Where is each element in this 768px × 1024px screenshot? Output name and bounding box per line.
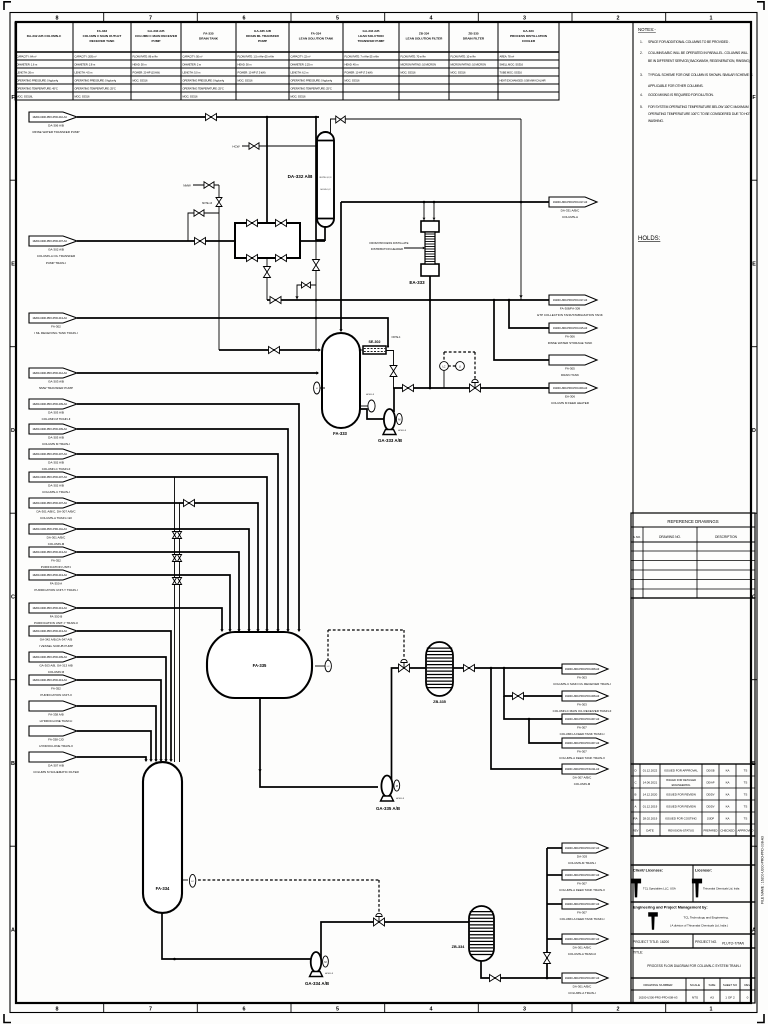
valve on DA-301 header y503 [184,500,195,507]
svg-text:DA-301 A/B/C, DA-307 A/B/C: DA-301 A/B/C, DA-307 A/B/C [36,510,76,514]
svg-text:LEAN SOLUTION TANK: LEAN SOLUTION TANK [299,37,334,41]
arrow into FA-334 x156 [154,759,157,762]
svg-text:DA-303: DA-303 [577,855,588,859]
destination tag FA-306 [548,323,597,345]
svg-text:GA-303 A/B, GA-313 A/B: GA-303 A/B, GA-313 A/B [39,664,72,668]
svg-text:MOC: SS316: MOC: SS316 [75,95,90,99]
svg-text:FA-352: FA-352 [51,559,61,563]
svg-text:LENGTH: 26 m: LENGTH: 26 m [17,71,35,75]
wire header line y706 to lean solution tank [77,706,156,760]
svg-text:16200-U300-PRO-PFD-010-A3: 16200-U300-PRO-PFD-010-A3 [32,115,67,119]
svg-text:MOC: SS316: MOC: SS316 [133,79,148,83]
svg-text:DA-307 A/B/C: DA-307 A/B/C [573,776,593,780]
svg-text:HYDROCLONE TRAIN-II: HYDROCLONE TRAIN-II [39,744,73,748]
svg-text:REFERENCE DRAWINGS: REFERENCE DRAWINGS [667,519,718,524]
svg-text:2: 2 [617,16,620,22]
drawing title block [631,948,755,978]
svg-text:3: 3 [523,1007,526,1013]
svg-text:NMW TRANSFER PUMP: NMW TRANSFER PUMP [39,386,73,390]
svg-text:TS: TS [744,781,748,785]
svg-text:COLUMN-A TRAIN-I: COLUMN-A TRAIN-I [568,991,596,995]
svg-text:GA-335 A/B: GA-335 A/B [376,806,400,811]
svg-text:APPLICABLE FOR OTHER COLUMNS.: APPLICABLE FOR OTHER COLUMNS. [648,84,704,88]
svg-text:HYDROCLONE TRAIN-I: HYDROCLONE TRAIN-I [40,719,73,723]
svg-text:FA-302: FA-302 [51,325,61,329]
svg-text:0: 0 [747,996,749,1000]
svg-text:HOLD-3: HOLD-3 [396,798,405,800]
svg-text:E: E [752,262,756,268]
svg-text:NMW: NMW [183,184,191,188]
svg-text:TITLE:: TITLE: [633,951,643,955]
svg-text:RINSE WATER STORAGE TANK: RINSE WATER STORAGE TANK [548,341,593,345]
wire header line y454 to drain tank [77,454,278,630]
svg-text:DIAMETER: 1.6 m: DIAMETER: 1.6 m [17,63,38,67]
svg-text:4.: 4. [640,93,643,97]
svg-text:FA-303: FA-303 [577,676,587,680]
wire header line y731 to lean solution tank [77,731,151,760]
valves on standpipes [172,555,176,562]
svg-text:NOTE-13: NOTE-13 [202,202,213,205]
svg-text:BE IN DIFFERENT SERVICE( BACKW: BE IN DIFFERENT SERVICE( BACKWASH, REGEN… [648,59,751,63]
svg-text:GA-342 A/B,GA-347 A/B: GA-342 A/B,GA-347 A/B [40,638,73,642]
svg-text:GOOD MIXING IS REQUIRED FOR DI: GOOD MIXING IS REQUIRED FOR DILUTION. [648,93,714,97]
svg-text:DD/AP: DD/AP [707,781,715,785]
instrument circle LC [440,362,449,371]
svg-text:DRAWING NUMBER: DRAWING NUMBER [643,983,673,987]
filter ZB-335 [426,642,453,696]
svg-text:PURIFICATION UNIT-I: PURIFICATION UNIT-I [41,565,72,569]
svg-text:2: 2 [617,1007,620,1013]
wire GA-302 suction line to manifold [77,240,235,242]
arrow on FA-335 outlet [258,769,261,772]
source tag GA-342 [29,626,77,648]
svg-text:ISSUED FOR REVIEW: ISSUED FOR REVIEW [666,793,696,797]
wire twin standpipe A [174,477,176,762]
svg-text:LENGTH: 5.0 m: LENGTH: 5.0 m [183,71,202,75]
svg-text:16200-U300-PRO-PFD-013-A3: 16200-U300-PRO-PFD-013-A3 [32,573,67,577]
svg-text:PROJECT NO.: PROJECT NO. [695,940,717,944]
wire header line y608 to drain tank [77,608,222,630]
svg-text:16200-U300-PRO-PFD-015-A3: 16200-U300-PRO-PFD-015-A3 [553,326,588,330]
svg-text:FA-335: FA-335 [203,31,213,35]
svg-text:8: 8 [56,16,59,22]
svg-text:LI: LI [459,365,461,368]
svg-text:KA: KA [726,781,730,785]
wire NMW transfer line y373 into FA-333 [77,372,318,374]
svg-text:COLUMN M TRAIN-I: COLUMN M TRAIN-I [42,442,70,446]
wire branch FA-307 I tag [547,903,562,905]
valve on mini bypass [302,282,311,288]
svg-text:16200-U300-PRO-PFD-007-A3: 16200-U300-PRO-PFD-007-A3 [565,717,600,721]
svg-text:16200-U300-PRO-PFD-009-A3: 16200-U300-PRO-PFD-009-A3 [32,427,67,431]
svg-text:SHELL MOC: SS316: SHELL MOC: SS316 [500,63,524,67]
svg-text:LENGTH: 4.5 m: LENGTH: 4.5 m [75,71,94,75]
svg-text:LEAN SOLUTION FILTER: LEAN SOLUTION FILTER [406,37,443,41]
destination tag FA-307 y875 [559,870,608,892]
svg-text:FA-350 B: FA-350 B [50,615,63,619]
arrow into FA-335 x267 [265,629,268,632]
wire FA-334 bottom outlet to GA-334 [162,913,311,959]
svg-text:EA-333: EA-333 [523,29,534,33]
svg-text:CAPACITY: 64 m³: CAPACITY: 64 m³ [17,55,37,59]
svg-text:COLUMN-A FEED TANK TRAIN-II: COLUMN-A FEED TANK TRAIN-II [559,888,605,892]
svg-text:DA-331 A/B/C: DA-331 A/B/C [561,209,581,213]
svg-text:PLUTO-TITAN: PLUTO-TITAN [722,942,744,946]
svg-text:FLOW RATE: 70 m³/hr: FLOW RATE: 70 m³/hr [401,55,426,59]
instrument dashed loop LC FA-333 [444,351,475,353]
svg-text:COLUMN-C MAIN O/L RECEIVER TRA: COLUMN-C MAIN O/L RECEIVER TRAIN-II [553,709,612,713]
svg-text:ENGINEERING: ENGINEERING [672,783,691,787]
svg-text:HOLD-3: HOLD-3 [366,394,375,396]
source tag FA-352 I [29,547,77,569]
svg-text:COOLER: COOLER [522,39,536,43]
svg-text:4: 4 [430,1007,433,1013]
svg-text:DA-301 A/B/C: DA-301 A/B/C [573,985,593,989]
svg-text:AREA: 78 m²: AREA: 78 m² [500,55,515,59]
vessel FA-333 [322,333,360,428]
svg-text:OPERATING TEMPERATURE: 25°C: OPERATING TEMPERATURE: 25°C [183,87,224,91]
svg-text:COLUMN-A O/L TRANSFER: COLUMN-A O/L TRANSFER [37,254,76,258]
svg-text:Client/ Licensee:: Client/ Licensee: [633,869,663,873]
svg-text:FA-352: FA-352 [51,687,61,691]
wire header line y404 to drain tank [77,404,299,630]
svg-text:FILE NAME : 16200-U300-PRO-PFD: FILE NAME : 16200-U300-PRO-PFD-008-A3 [761,836,765,904]
svg-text:FA-307: FA-307 [577,911,587,915]
svg-text:COLUMN M SCHEMATIC FILTER: COLUMN M SCHEMATIC FILTER [33,770,79,774]
arrow into FA-335 x222 [220,629,223,632]
svg-text:CAPACITY: 50 m³: CAPACITY: 50 m³ [183,55,203,59]
wire header line y429 to drain tank [77,429,288,630]
node on y388 [429,387,432,390]
wire FA-335 bottom outlet to GA-335 [260,698,378,787]
label from process distillate header [370,241,425,251]
wire NMW line [193,184,219,186]
svg-text:SPACE FOR ADDITIONAL COLUMNS T: SPACE FOR ADDITIONAL COLUMNS TO BE PROVI… [648,40,730,44]
svg-text:DATE: DATE [646,829,654,833]
svg-text:16200-U300-PRO-PFD-011-A3: 16200-U300-PRO-PFD-011-A3 [32,527,67,531]
svg-text:OPERATING TEMPERATURE: 25°C: OPERATING TEMPERATURE: 25°C [291,87,332,91]
svg-text:POWER: 10 HP (7.5 kW): POWER: 10 HP (7.5 kW) [345,71,373,75]
node junctions on ETP header [315,299,318,302]
arrow into FA-335 x278 [276,629,279,632]
svg-text:REV: REV [744,983,751,987]
svg-text:TS: TS [744,817,748,821]
source tag DA-301/307 [29,498,77,520]
svg-text:M: M [324,960,326,964]
svg-text:16200-U300-PRO-PFD-007-A3: 16200-U300-PRO-PFD-007-A3 [32,475,67,479]
svg-text:FLOW RATE: 1.5 m³/hr+25 m³/hr: FLOW RATE: 1.5 m³/hr+25 m³/hr [238,55,275,59]
arrow into FA-335 x230 [228,629,231,632]
valve manifold bottom right [276,255,287,262]
svg-text:16200-U300-PRO-PFD-013-A3: 16200-U300-PRO-PFD-013-A3 [32,316,67,320]
svg-text:KA: KA [726,769,730,773]
svg-text:FLOW RATE: 7 m³/hr+25 m³/hr: FLOW RATE: 7 m³/hr+25 m³/hr [345,55,380,59]
svg-text:DD/DV: DD/DV [706,793,714,797]
svg-text:COLUMN-C TRAIN-I: COLUMN-C TRAIN-I [42,490,70,494]
svg-text:OPERATING PRESSURE: 0 kg/cm²g: OPERATING PRESSURE: 0 kg/cm²g [17,79,59,83]
svg-text:SHEET NO: SHEET NO [723,983,738,987]
svg-text:NTS: NTS [692,996,698,1000]
svg-text:M: M [396,784,398,788]
svg-text:KA: KA [726,817,730,821]
source tag GA-302 [29,236,77,265]
svg-text:GA-333 A/B: GA-333 A/B [378,438,402,443]
svg-text:16200-U300-PRO-PFD-017-A3: 16200-U300-PRO-PFD-017-A3 [553,200,588,204]
instrument circle LI [456,362,465,371]
svg-text:FA-334: FA-334 [311,31,321,35]
valve vertical SE-302 drain [390,366,397,377]
svg-text:FA-350 A: FA-350 A [50,582,62,586]
svg-text:16200-U300-PRO-PFD-007-A3: 16200-U300-PRO-PFD-007-A3 [565,741,600,745]
svg-text:FA-308/FA-309: FA-308/FA-309 [560,307,581,311]
svg-text:OPERATING TEMPERATURE: 45°C: OPERATING TEMPERATURE: 45°C [17,87,58,91]
wire header line y529 to drain tank [77,529,249,630]
wire FA-333 bottom to pump suction [359,409,384,419]
source tag FA-350A [29,570,78,592]
svg-text:OPERATING PRESSURE: 0 kg/cm²g: OPERATING PRESSURE: 0 kg/cm²g [291,79,333,83]
arrow mini bypass [295,296,298,299]
svg-text:PUMP: PUMP [152,39,161,43]
vessel FA-334 lean solution tank [143,762,182,913]
wire GA-335 discharge riser [392,668,427,786]
svg-text:A3: A3 [710,996,714,1000]
wire header line y657 to lean solution tank [77,657,166,760]
svg-text:16200-U300-PRO-PFD-007-A3: 16200-U300-PRO-PFD-007-A3 [565,873,600,877]
wire header line y477 to drain tank [77,477,267,630]
instrument dashed loop LC FA-334 [198,879,379,881]
svg-text:MOC: SS316L: MOC: SS316L [17,95,34,99]
svg-text:HEAT EXCHANGED: 0.58 MM KCAL/H: HEAT EXCHANGED: 0.58 MM KCAL/HR [500,79,546,83]
destination tag DA-303 y848 [562,843,608,865]
notes text block [638,27,753,123]
svg-text:DD/DV: DD/DV [706,805,714,809]
svg-text:KA: KA [726,793,730,797]
valve after GA-333 pump [403,385,414,392]
source tag FA-350B [29,603,78,625]
svg-text:3.: 3. [640,73,643,77]
svg-text:DRAWING NO.: DRAWING NO. [659,535,681,539]
svg-text:DESCRIPTION: DESCRIPTION [715,535,737,539]
svg-text:16200-U300-PRO-PFD-013-A3: 16200-U300-PRO-PFD-013-A3 [32,629,67,633]
svg-text:COLUMN-A TRAIN-II: COLUMN-A TRAIN-II [568,952,596,956]
arrow into FA-333 shoulder [318,348,321,351]
svg-text:ETP COLLECTION TANK/STABILIZAT: ETP COLLECTION TANK/STABILIZATION TANK [537,313,602,317]
pump GA-333 A/B [383,388,402,435]
svg-text:EA-333: EA-333 [409,280,425,285]
svg-text:CAPACITY: 20/5 m³: CAPACITY: 20/5 m³ [75,55,97,59]
valve on overhead line [336,116,346,123]
destination tag FA-308/FA-309 [537,295,602,317]
svg-text:FA-307: FA-307 [577,750,587,754]
svg-text:16200-U300-PRO-PFD-007-A3: 16200-U300-PRO-PFD-007-A3 [32,239,67,243]
svg-text:I ML RECEIVING TANK TRAIN-I: I ML RECEIVING TANK TRAIN-I [34,331,77,335]
svg-text:16200-U300-PRO-PFD-009-A3: 16200-U300-PRO-PFD-009-A3 [553,386,588,390]
svg-text:DA-303 A/B: DA-303 A/B [48,411,64,415]
svg-text:OPERATING PRESSURE: 0 kg/cm²g: OPERATING PRESSURE: 0 kg/cm²g [75,79,117,83]
svg-text:LENGTH: 6.2 m: LENGTH: 6.2 m [291,71,310,75]
valve after ZB-335 [464,665,475,672]
project title row [631,934,755,948]
svg-text:CHECKED: CHECKED [720,829,734,833]
wire header line y503 to drain tank [77,503,258,630]
svg-text:PURIFICATION UNIT-Y TRAIN-I: PURIFICATION UNIT-Y TRAIN-I [34,588,77,592]
svg-text:14.06.2021: 14.06.2021 [643,781,658,785]
source tag DA-302 II [29,449,77,471]
destination tag FA-303 y669 [553,664,611,686]
wire header line y757 to lean solution tank [77,757,146,760]
svg-text:REVISION-STATUS: REVISION-STATUS [668,829,694,833]
svg-text:E: E [11,262,15,268]
svg-text:7: 7 [149,16,152,22]
svg-text:D: D [634,769,636,773]
svg-text:A: A [11,928,15,934]
pump GA-335 A/B [381,776,400,802]
destination tag DA-301 A/B/C y978 [562,973,608,995]
svg-text:MOC: SS316: MOC: SS316 [291,95,306,99]
svg-text:APPROVED: APPROVED [737,829,753,833]
valves on standpipes [172,532,176,539]
svg-text:PROJECT TITLE: 16200: PROJECT TITLE: 16200 [633,940,669,944]
svg-text:FA-338 C/D: FA-338 C/D [48,738,65,742]
svg-text:ISSUED FOR DETAILED: ISSUED FOR DETAILED [666,778,696,782]
svg-text:NOTES:-: NOTES:- [638,27,656,32]
source tag DA-303 II [29,399,77,421]
svg-text:TS: TS [744,805,748,809]
valve manifold top left [247,220,258,227]
wire branch FA-303 train II [504,668,562,696]
wire column overhead to right header [331,119,522,134]
source tag FA-338AB [29,701,77,723]
equipment summary table [15,22,559,100]
valve on y350 line [269,347,280,354]
valve vertical below manifold [264,267,271,278]
node junction at y117 [266,116,269,119]
svg-text:HOLD-3: HOLD-3 [325,973,334,975]
svg-text:POWER: 10 HP (7.5 kW): POWER: 10 HP (7.5 kW) [238,71,266,75]
instrument circle drain FA-333 [360,400,375,412]
source tag DA-303 I [29,424,77,446]
svg-text:DISTRIBUTION HEADER: DISTRIBUTION HEADER [371,247,403,251]
svg-text:ZB-335: ZB-335 [433,700,446,704]
svg-text:PROCESS DISTILLATION: PROCESS DISTILLATION [510,34,548,38]
destination tag DA-331 A/B/C [549,197,597,219]
svg-text:COLUMN-A: COLUMN-A [562,215,578,219]
svg-text:JS/DP: JS/DP [707,817,715,821]
svg-text:TYPICAL SCHEME FOR ONE COLUMN: TYPICAL SCHEME FOR ONE COLUMN IS SHOWN. … [648,73,753,77]
arrow into FA-334 x166 [164,759,167,762]
svg-text:DD/SB: DD/SB [707,769,715,773]
svg-text:01.12.2022: 01.12.2022 [643,769,658,773]
valve NOTE-13 vertical [216,198,222,207]
svg-text:16200-U300-PRO-PFD-013-A3: 16200-U300-PRO-PFD-013-A3 [32,678,67,682]
valve on rinse water line [206,114,217,121]
wire ZB-334 outlet header [481,961,561,978]
drawing number row [631,978,755,1003]
client licensee block [631,836,755,902]
svg-text:PURIFICATION UNIT-Y TRAIN-II: PURIFICATION UNIT-Y TRAIN-II [34,621,78,625]
svg-text:RECEIVER TANK: RECEIVER TANK [89,39,115,43]
svg-text:16200-U300-PRO-PFD-007-A3: 16200-U300-PRO-PFD-007-A3 [32,452,67,456]
svg-text:16200-U300-PRO-PFD-007-A3: 16200-U300-PRO-PFD-007-A3 [32,501,67,505]
svg-text:DA-301 A/B/C: DA-301 A/B/C [573,946,593,950]
instrument circle LI FA-333 [314,382,325,394]
svg-text:LC: LC [442,365,445,368]
svg-text:16200-U300-PRO-PFD-017-A3: 16200-U300-PRO-PFD-017-A3 [553,298,588,302]
svg-text:MOC: SS316: MOC: SS316 [345,79,360,83]
svg-text:TS: TS [744,769,748,773]
svg-text:FLOW RATE: 10 m³/hr: FLOW RATE: 10 m³/hr [451,55,476,59]
svg-text:MOC: SS316: MOC: SS316 [183,95,198,99]
valve vertical on standpipe [544,953,551,964]
svg-text:HEAD: 50 m: HEAD: 50 m [238,63,253,67]
wire recycle line y350 into FA-333 [219,349,320,351]
strainer SE-302 [359,345,389,354]
svg-text:COLUMN M: COLUMN M [48,670,65,674]
svg-text:DA-332 A/B: DA-332 A/B [288,174,314,179]
svg-text:COLUMN-A FEED TANK TRAIN-I: COLUMN-A FEED TANK TRAIN-I [560,917,605,921]
svg-text:HOLDS:: HOLDS: [638,236,661,242]
svg-text:DIAMETER: 2.25 m: DIAMETER: 2.25 m [291,63,314,67]
svg-text:DA-307 A/B: DA-307 A/B [48,764,64,768]
arrow into FA-334 x161 [159,759,162,762]
wire branch to FA-306 tag [509,300,549,328]
wire twin standpipe B [179,503,181,762]
wire overhead header drop x521 [520,119,522,300]
destination tag DA-301 A/B/C y939 [562,934,608,956]
control valve GA-335 discharge [399,664,410,672]
svg-text:HEAD: 45 m: HEAD: 45 m [345,63,360,67]
svg-text:Engineering and Project Manage: Engineering and Project Management by: [633,906,708,910]
svg-text:M: M [398,418,400,422]
svg-text:FA-333: FA-333 [333,431,347,436]
destination tag FA-305 [549,355,597,377]
wire rinse water line from DA-306 tag [77,116,319,118]
svg-text:NOTE-1,2,3: NOTE-1,2,3 [320,177,332,179]
svg-text:OPERATING TEMPERATURE: 25°C: OPERATING TEMPERATURE: 25°C [75,87,116,91]
wire reflux drop to column bottom line [316,117,325,240]
svg-text:FOR SYSTEM OPERATING TEMPERATU: FOR SYSTEM OPERATING TEMPERATURE BELOW 1… [648,105,749,109]
wire overhead product header y202 [341,201,549,203]
destination tag DA-307 A/B/C y769 [562,764,608,786]
wire distribution standpipe x547 [546,848,548,978]
svg-text:ZB-334: ZB-334 [419,31,430,35]
instrument dashed loop LC FA-335 [327,630,329,661]
svg-text:Licensor:: Licensor: [695,869,712,873]
valve after ZB-334 [490,975,501,982]
svg-text:14.12.2020: 14.12.2020 [643,793,658,797]
destination tag EA-306 [549,383,597,405]
wire branch DA-303 tag [547,847,562,849]
svg-text:KA: KA [726,805,730,809]
svg-text:COLUMN-A TRAIN-I &II: COLUMN-A TRAIN-I &II [40,516,72,520]
svg-text:3: 3 [523,16,526,22]
svg-text:16200-U300-PRO-PFD-008-A3: 16200-U300-PRO-PFD-008-A3 [639,996,678,1000]
wire header line y552 to drain tank [77,552,239,630]
svg-text:4: 4 [430,16,433,22]
svg-text:OPERATING PRESSURE: 0 kg/cm²g: OPERATING PRESSURE: 0 kg/cm²g [183,79,225,83]
svg-text:FA-333: FA-333 [97,29,107,33]
cooler EA-333 [421,221,439,276]
svg-text:7: 7 [149,1007,152,1013]
svg-text:16200-U300-PRO-PFD-013-A3: 16200-U300-PRO-PFD-013-A3 [32,550,67,554]
svg-text:ISSUED FOR APPROVAL: ISSUED FOR APPROVAL [664,769,698,773]
svg-text:PROCESS FLOW DIAGRAM FOR COLUM: PROCESS FLOW DIAGRAM FOR COLUMN-C SYSTEM… [647,964,741,968]
svg-text:1 OF 2: 1 OF 2 [725,996,735,1000]
wire header line y631 to lean solution tank [77,631,171,760]
node FA-302 line crossing [315,317,318,320]
svg-text:SCALE: SCALE [690,983,700,987]
node junctions after ZB-335 [490,667,493,670]
